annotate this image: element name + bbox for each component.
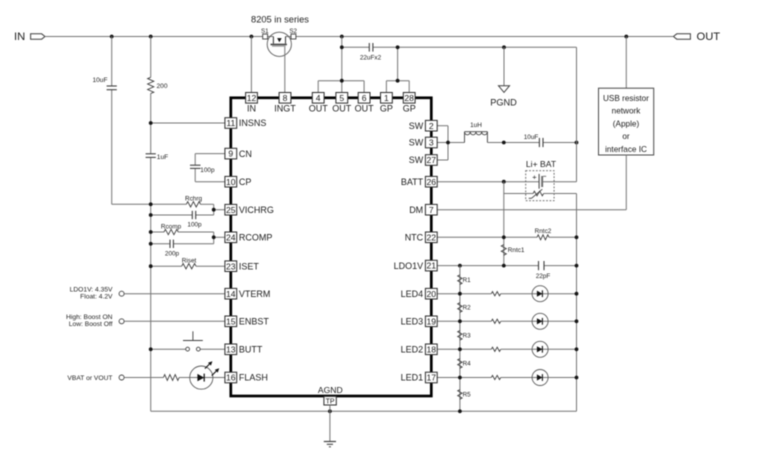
svg-text:3: 3 [429, 138, 434, 148]
wire VTERM net [124, 293, 225, 295]
wire OUT to USB network box [625, 37, 627, 89]
pin 22 NTC [425, 232, 437, 243]
wire CN-CP loop [195, 153, 225, 155]
svg-text:200: 200 [157, 83, 168, 90]
wire LED3 row [437, 320, 491, 322]
svg-text:SW: SW [409, 138, 424, 148]
svg-text:R2: R2 [463, 305, 472, 312]
svg-text:23: 23 [226, 261, 236, 271]
svg-text:10uF: 10uF [524, 134, 539, 141]
pin 16 FLASH [225, 372, 237, 383]
svg-text:Rntc1: Rntc1 [508, 247, 525, 254]
svg-text:2: 2 [429, 121, 434, 131]
svg-text:VTERM: VTERM [239, 289, 271, 299]
svg-text:OUT: OUT [332, 103, 352, 113]
capacitor 22pF [538, 261, 540, 270]
svg-text:25: 25 [226, 205, 236, 215]
svg-text:8205 in series: 8205 in series [251, 15, 309, 25]
svg-text:High: Boost ON: High: Boost ON [66, 314, 113, 321]
capacitor 1uF [146, 153, 156, 155]
svg-text:CN: CN [239, 149, 252, 159]
pin 10 CP [225, 176, 237, 187]
svg-text:LED3: LED3 [401, 317, 424, 327]
svg-text:1uH: 1uH [470, 122, 482, 129]
pin 20 LED4 [425, 288, 437, 299]
resistor Rcomp [164, 229, 178, 234]
wire LED1 row [437, 377, 491, 379]
LED D1 indicator [532, 370, 548, 386]
resistor LED1 series [491, 375, 500, 379]
pin 1 GP [381, 93, 393, 104]
svg-text:RCOMP: RCOMP [239, 233, 273, 243]
svg-text:FLASH: FLASH [239, 373, 268, 383]
svg-text:GP: GP [403, 103, 416, 113]
wire NTC net [437, 236, 537, 238]
svg-text:22uFx2: 22uFx2 [360, 54, 382, 61]
svg-text:OUT: OUT [309, 103, 329, 113]
wire IN-OUT main net [45, 36, 273, 38]
pin 4 OUT [312, 93, 324, 104]
pin 6 OUT [358, 93, 370, 104]
LED D4 indicator [532, 286, 548, 302]
pin 5 OUT [336, 93, 348, 104]
svg-text:14: 14 [226, 289, 236, 299]
svg-text:LED4: LED4 [401, 289, 424, 299]
svg-text:15: 15 [226, 316, 236, 326]
svg-text:LDO1V: LDO1V [394, 261, 424, 271]
wire ENBST net [124, 320, 225, 322]
pin 12 IN [246, 93, 258, 104]
pin 18 LED2 [425, 344, 437, 355]
resistor Rchrg [186, 202, 200, 207]
ground earth symbol [324, 441, 336, 443]
svg-text:13: 13 [226, 344, 236, 354]
svg-text:R3: R3 [463, 333, 472, 340]
wire LED4 row [437, 293, 491, 295]
svg-text:Riset: Riset [182, 257, 197, 264]
wire VICHRG net Rchrg branch [151, 203, 187, 205]
junction dots on main net [110, 35, 114, 39]
svg-text:(Apple): (Apple) [613, 119, 640, 128]
pin 24 RCOMP [225, 232, 237, 243]
pin 3 SW [425, 137, 437, 148]
wire AGND to ground [329, 405, 331, 442]
pin 11 INSNS [225, 118, 237, 129]
resistor LED4 series [491, 292, 500, 296]
svg-text:1: 1 [384, 93, 389, 103]
LED D3 indicator [532, 313, 548, 329]
svg-text:AGND: AGND [318, 385, 343, 395]
ground PGND [499, 86, 510, 93]
wire BATT net [437, 181, 539, 183]
svg-text:VICHRG: VICHRG [239, 205, 274, 215]
svg-text:SW: SW [409, 121, 424, 131]
svg-text:200p: 200p [165, 250, 180, 257]
svg-text:26: 26 [427, 177, 437, 187]
resistor R5 [458, 390, 462, 400]
wire OUT cap net [341, 37, 343, 81]
capacitor 10uF input [107, 85, 117, 87]
wire LED2 row [437, 348, 491, 350]
pin 28 GP [403, 93, 415, 104]
wire GP pins bracket [386, 80, 409, 82]
wire INSNS net [151, 122, 225, 124]
svg-text:5: 5 [339, 93, 344, 103]
wire OUT pins bracket [318, 80, 364, 82]
svg-text:GP: GP [380, 103, 393, 113]
port OUT [673, 34, 690, 39]
svg-text:24: 24 [226, 232, 236, 242]
svg-text:NTC: NTC [405, 233, 424, 243]
wire BUTT net [151, 348, 186, 350]
svg-text:interface IC: interface IC [605, 145, 647, 154]
svg-text:20: 20 [427, 289, 437, 299]
pin 23 ISET [225, 261, 237, 272]
svg-text:7: 7 [429, 205, 434, 215]
wire USB box to DM pin 7 [625, 155, 627, 210]
svg-text:10: 10 [226, 177, 236, 187]
inductor L1 1uH [464, 132, 466, 143]
svg-text:100p: 100p [187, 222, 202, 229]
resistor Rntc2 [537, 235, 549, 240]
resistor Rntc1 [501, 245, 506, 256]
wire left rail [150, 37, 152, 78]
capacitor 100p charge pump [190, 164, 201, 166]
svg-text:17: 17 [427, 373, 437, 383]
wire to pin 12 IN [250, 37, 252, 93]
pin 17 LED1 [425, 372, 437, 383]
wire LED resistor ladder [459, 266, 461, 412]
wire ISET net [151, 265, 182, 267]
pushbutton switch [186, 347, 190, 351]
wire inductor to 10uF out cap [487, 142, 539, 144]
svg-text:OUT: OUT [697, 31, 721, 43]
svg-text:or: or [622, 132, 630, 141]
svg-text:LED1: LED1 [401, 373, 424, 383]
resistor flash series [163, 375, 179, 381]
svg-text:USB resistor: USB resistor [603, 94, 649, 103]
pin 8 INGT [279, 93, 291, 104]
svg-text:27: 27 [427, 155, 437, 165]
resistor R2 [458, 303, 462, 313]
resistor Riset [182, 264, 196, 269]
svg-text:6: 6 [362, 93, 367, 103]
svg-text:9: 9 [228, 149, 233, 159]
svg-text:4: 4 [316, 93, 321, 103]
resistor LED2 series [491, 347, 500, 351]
svg-text:SW: SW [409, 155, 424, 165]
svg-text:Float: 4.2V: Float: 4.2V [80, 294, 113, 301]
wire right rail top segment [576, 47, 578, 181]
svg-text:INGT: INGT [274, 103, 296, 113]
svg-text:OUT: OUT [355, 103, 375, 113]
svg-text:10uF: 10uF [92, 77, 107, 84]
pin 2 SW [425, 120, 437, 131]
svg-text:100p: 100p [200, 167, 215, 174]
svg-text:network: network [612, 107, 642, 116]
junction dots bottom rail [328, 409, 332, 413]
pin 21 LDO1V [425, 260, 437, 271]
svg-text:R5: R5 [463, 392, 472, 399]
LED D2 indicator [532, 341, 548, 357]
wire BATT to thermistor drop [503, 182, 505, 266]
svg-text:Rcomp: Rcomp [161, 223, 182, 230]
svg-text:BUTT: BUTT [239, 345, 263, 355]
svg-text:PGND: PGND [490, 98, 517, 108]
svg-text:LED2: LED2 [401, 345, 424, 355]
svg-text:22: 22 [427, 232, 437, 242]
wire SW pins join [437, 125, 448, 127]
pin 25 VICHRG [225, 204, 237, 215]
LED flash diode [190, 366, 213, 389]
wire LDO1V net [437, 265, 538, 267]
svg-text:IN: IN [247, 103, 256, 113]
IC U1 body [231, 98, 431, 396]
svg-text:Li+ BAT: Li+ BAT [526, 159, 557, 169]
junction dots OUT cap net [340, 45, 344, 49]
thermistor in battery pack [504, 193, 533, 195]
svg-text:Rchrg: Rchrg [185, 196, 202, 203]
svg-text:BATT: BATT [401, 177, 424, 187]
wire to PGND [503, 47, 505, 86]
capacitor 200p [169, 240, 171, 248]
wire gate to pin 8 INGT [284, 47, 286, 93]
pin 19 LED3 [425, 316, 437, 327]
resistor 200 [148, 77, 154, 93]
svg-text:21: 21 [427, 261, 437, 271]
wire 10uF input branch [111, 37, 113, 87]
svg-text:28: 28 [404, 93, 414, 103]
wire RCOMP net [151, 231, 164, 233]
svg-text:18: 18 [427, 344, 437, 354]
wire right rail lower segment [576, 194, 578, 412]
pin 14 VTERM [225, 288, 237, 299]
capacitor 10uF output [538, 138, 540, 147]
wire FLASH net [124, 377, 163, 379]
svg-text:R4: R4 [463, 361, 472, 368]
svg-text:TP: TP [326, 398, 335, 405]
pin 13 BUTT [225, 344, 237, 355]
resistor R1 [458, 275, 462, 285]
svg-text:19: 19 [427, 316, 437, 326]
capacitor 22uFx2 [368, 43, 370, 52]
block USB resistor network [599, 88, 654, 155]
svg-text:INSNS: INSNS [239, 118, 267, 128]
svg-text:R1: R1 [463, 277, 472, 284]
svg-text:12: 12 [247, 93, 257, 103]
pin 9 CN [225, 148, 237, 159]
svg-text:IN: IN [14, 31, 25, 43]
resistor R3 [458, 331, 462, 341]
capacitor 100p VICHRG [191, 211, 193, 219]
svg-text:ENBST: ENBST [239, 317, 270, 327]
svg-text:1uF: 1uF [157, 154, 168, 161]
pin 27 SW [425, 155, 437, 166]
pin 26 BATT [425, 176, 437, 187]
svg-text:CP: CP [239, 177, 252, 187]
svg-text:LDO1V: 4.35V: LDO1V: 4.35V [70, 286, 113, 293]
svg-text:Low: Boost Off: Low: Boost Off [69, 321, 113, 328]
svg-text:22pF: 22pF [536, 273, 551, 280]
svg-text:11: 11 [226, 118, 235, 128]
pin 7 DM [425, 204, 437, 215]
pin 15 ENBST [225, 316, 237, 327]
svg-text:8: 8 [283, 93, 288, 103]
svg-text:DM: DM [409, 205, 423, 215]
svg-text:VBAT or VOUT: VBAT or VOUT [67, 375, 112, 382]
resistor LED3 series [491, 319, 500, 323]
svg-text:Rntc2: Rntc2 [535, 228, 552, 235]
svg-text:ISET: ISET [239, 261, 260, 271]
resistor R4 [458, 359, 462, 369]
svg-text:16: 16 [226, 373, 236, 383]
svg-text:+: + [532, 172, 537, 181]
